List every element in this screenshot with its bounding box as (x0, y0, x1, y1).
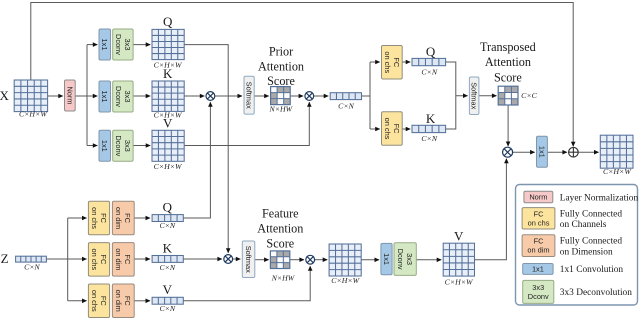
svg-text:Dconv: Dconv (114, 86, 123, 107)
svg-text:Dconv: Dconv (114, 135, 123, 156)
svg-text:Q: Q (426, 44, 436, 59)
svg-text:C×C: C×C (521, 91, 537, 100)
svg-text:on chs: on chs (383, 51, 392, 73)
svg-text:C×H×W: C×H×W (154, 162, 183, 171)
svg-text:1x1: 1x1 (382, 253, 391, 265)
svg-text:Softmax: Softmax (470, 82, 479, 109)
svg-text:on Dimension: on Dimension (560, 247, 613, 257)
svg-text:on dim: on dim (114, 290, 123, 312)
svg-text:FC: FC (123, 254, 132, 265)
svg-text:on chs: on chs (90, 207, 99, 229)
svg-text:C×H×W: C×H×W (154, 111, 183, 120)
svg-text:Q: Q (163, 200, 173, 215)
svg-text:3x3: 3x3 (123, 39, 132, 51)
svg-text:1x1: 1x1 (100, 91, 109, 103)
svg-text:Score: Score (494, 71, 522, 85)
svg-text:Transposed: Transposed (480, 40, 536, 54)
svg-text:on chs: on chs (383, 118, 392, 140)
svg-text:Q: Q (163, 14, 173, 29)
svg-text:Norm: Norm (529, 193, 547, 202)
svg-text:on dim: on dim (114, 207, 123, 229)
svg-text:C×H×W: C×H×W (445, 277, 474, 286)
svg-text:FC: FC (99, 254, 108, 265)
svg-text:X: X (0, 88, 10, 103)
svg-text:on Channels: on Channels (560, 220, 607, 230)
svg-text:1x1: 1x1 (100, 140, 109, 152)
svg-text:V: V (163, 282, 173, 297)
svg-text:N×HW: N×HW (271, 274, 296, 283)
svg-text:1x1: 1x1 (100, 39, 109, 51)
svg-text:C×N: C×N (24, 263, 40, 272)
svg-text:FC: FC (534, 237, 545, 246)
svg-text:on dim: on dim (527, 246, 549, 255)
svg-text:Prior: Prior (269, 45, 293, 59)
svg-text:on chs: on chs (528, 218, 550, 227)
svg-text:on chs: on chs (90, 290, 99, 312)
svg-text:Attention: Attention (258, 59, 304, 73)
svg-text:C×N: C×N (421, 134, 437, 143)
svg-text:1x1: 1x1 (537, 146, 546, 158)
svg-text:Layer Normalization: Layer Normalization (560, 194, 639, 204)
svg-text:Dconv: Dconv (528, 292, 549, 301)
svg-text:C×H×W: C×H×W (331, 276, 360, 285)
svg-text:N×HW: N×HW (269, 104, 294, 113)
svg-text:3x3 Deconvolution: 3x3 Deconvolution (560, 288, 632, 298)
svg-text:on chs: on chs (90, 248, 99, 270)
svg-text:Dconv: Dconv (396, 249, 405, 270)
svg-text:Attention: Attention (257, 222, 303, 236)
svg-text:Norm: Norm (65, 86, 74, 104)
svg-text:Fully Connected: Fully Connected (560, 236, 623, 246)
svg-text:Z: Z (1, 251, 9, 266)
svg-text:Fully Connected: Fully Connected (560, 209, 623, 219)
svg-text:Softmax: Softmax (244, 246, 253, 273)
svg-text:K: K (163, 240, 173, 255)
svg-text:FC: FC (534, 209, 545, 218)
svg-text:1x1 Convolution: 1x1 Convolution (560, 265, 624, 275)
svg-text:Softmax: Softmax (245, 82, 254, 109)
svg-text:C×N: C×N (159, 221, 175, 230)
svg-text:FC: FC (123, 296, 132, 307)
svg-text:C×N: C×N (159, 304, 175, 313)
svg-text:3x3: 3x3 (405, 253, 414, 265)
svg-text:C×N: C×N (421, 67, 437, 76)
svg-text:on dim: on dim (114, 248, 123, 270)
svg-text:3x3: 3x3 (123, 140, 132, 152)
svg-text:Score: Score (266, 237, 294, 251)
svg-text:1x1: 1x1 (532, 265, 544, 274)
svg-text:Feature: Feature (262, 207, 299, 221)
svg-text:FC: FC (392, 57, 401, 68)
svg-text:FC: FC (99, 213, 108, 224)
svg-text:K: K (426, 111, 436, 126)
svg-text:3x3: 3x3 (532, 283, 544, 292)
svg-text:3x3: 3x3 (123, 91, 132, 103)
svg-text:C×H×W: C×H×W (154, 60, 183, 69)
svg-text:C×N: C×N (159, 263, 175, 272)
svg-text:V: V (454, 228, 464, 243)
svg-text:C×H×W: C×H×W (19, 109, 48, 118)
svg-text:FC: FC (99, 296, 108, 307)
svg-text:Dconv: Dconv (114, 34, 123, 55)
svg-text:FC: FC (123, 213, 132, 224)
svg-text:C×N: C×N (338, 101, 354, 110)
svg-text:Attention: Attention (485, 55, 531, 69)
svg-text:C×H×W: C×H×W (603, 167, 632, 176)
svg-text:Score: Score (267, 74, 295, 88)
svg-text:FC: FC (392, 124, 401, 135)
